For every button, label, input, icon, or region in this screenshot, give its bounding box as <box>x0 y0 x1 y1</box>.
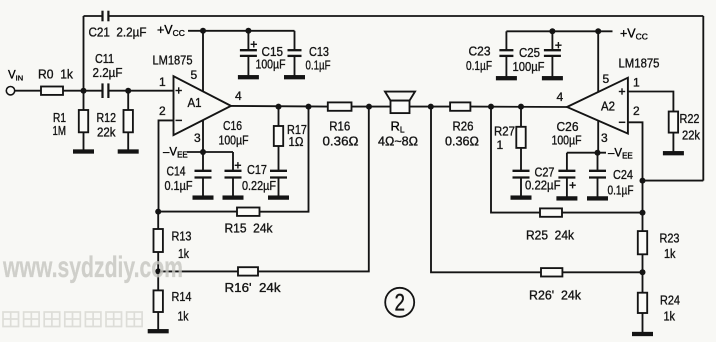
svg-text:2.2µF: 2.2µF <box>93 65 123 80</box>
svg-text:LM1875: LM1875 <box>153 53 193 68</box>
svg-text:22k: 22k <box>682 129 701 143</box>
svg-text:100µF: 100µF <box>513 59 545 74</box>
svg-text:4: 4 <box>557 90 564 104</box>
svg-text:C16: C16 <box>223 118 242 133</box>
svg-text:R26' 24k: R26' 24k <box>529 288 581 303</box>
svg-text:A2: A2 <box>601 100 615 114</box>
svg-text:1: 1 <box>159 75 166 89</box>
svg-text:5: 5 <box>603 72 610 86</box>
svg-text:0.1µF: 0.1µF <box>608 183 634 198</box>
svg-text:C17: C17 <box>247 162 267 177</box>
svg-text:1: 1 <box>633 76 640 90</box>
svg-text:R14: R14 <box>172 289 192 304</box>
svg-text:1k: 1k <box>664 310 676 324</box>
svg-text:1: 1 <box>497 138 504 152</box>
svg-text:0.22µF: 0.22µF <box>525 178 561 193</box>
svg-text:4: 4 <box>235 89 242 103</box>
svg-text:0.1µF: 0.1µF <box>466 58 492 73</box>
svg-text:C23: C23 <box>469 44 491 59</box>
svg-text:100µF: 100µF <box>552 133 582 148</box>
svg-text:R15 24k: R15 24k <box>225 221 273 236</box>
svg-text:R26: R26 <box>453 119 474 134</box>
svg-text:4Ω~8Ω: 4Ω~8Ω <box>378 135 418 149</box>
svg-text:C21 2.2µF: C21 2.2µF <box>89 25 147 40</box>
svg-text:100µF: 100µF <box>256 57 286 72</box>
svg-text:R23: R23 <box>660 231 680 246</box>
svg-text:C24: C24 <box>613 167 633 182</box>
svg-text:www.sydzdiy.com: www.sydzdiy.com <box>2 251 183 284</box>
svg-text:LM1875: LM1875 <box>619 56 660 71</box>
svg-text:R12: R12 <box>97 111 117 125</box>
svg-text:100µF: 100µF <box>219 133 249 148</box>
svg-text:C25: C25 <box>519 45 540 60</box>
svg-text:1M: 1M <box>53 124 67 138</box>
svg-text:2: 2 <box>159 104 166 118</box>
svg-text:R13: R13 <box>172 229 192 244</box>
svg-text:1k: 1k <box>178 310 190 324</box>
svg-text:R27: R27 <box>494 124 515 139</box>
svg-text:R25 24k: R25 24k <box>526 228 574 243</box>
svg-text:C11: C11 <box>95 51 114 66</box>
svg-text:C14: C14 <box>167 165 186 179</box>
svg-text:0.22µF: 0.22µF <box>242 178 276 193</box>
svg-text:0.1µF: 0.1µF <box>165 179 193 193</box>
svg-text:A1: A1 <box>188 96 202 110</box>
svg-text:R22: R22 <box>680 111 700 126</box>
svg-text:R16: R16 <box>329 119 350 134</box>
svg-text:0.1µF: 0.1µF <box>306 58 331 73</box>
svg-text:0.36Ω: 0.36Ω <box>323 135 359 149</box>
svg-text:1k: 1k <box>664 247 676 261</box>
svg-text:2: 2 <box>394 290 405 317</box>
svg-text:1Ω: 1Ω <box>289 135 304 149</box>
svg-text:R24: R24 <box>660 293 680 308</box>
svg-text:R16' 24k: R16' 24k <box>225 280 282 295</box>
svg-text:R0 1k: R0 1k <box>38 68 74 82</box>
svg-text:2: 2 <box>633 104 640 118</box>
svg-text:0.36Ω: 0.36Ω <box>445 135 479 149</box>
svg-text:3: 3 <box>601 131 608 145</box>
svg-text:5: 5 <box>191 68 198 82</box>
svg-text:R1: R1 <box>53 111 66 125</box>
svg-text:22k: 22k <box>97 126 116 140</box>
svg-text:3: 3 <box>194 131 201 145</box>
